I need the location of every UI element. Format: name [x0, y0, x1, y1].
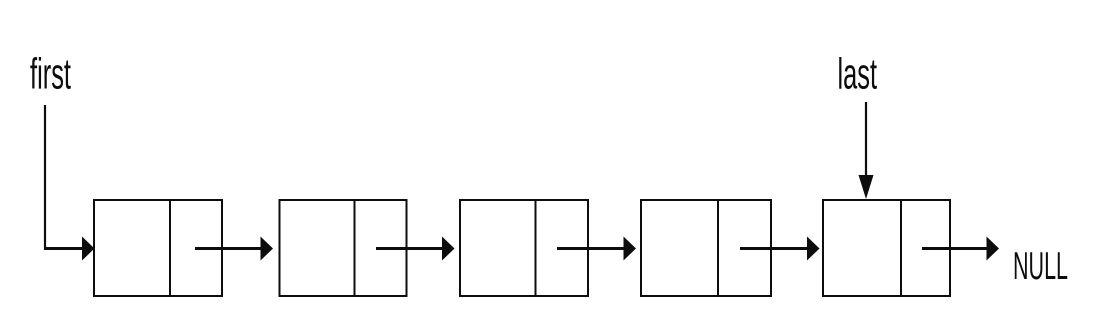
svg-text:NULL: NULL [1013, 245, 1068, 288]
svg-text:first: first [30, 50, 71, 99]
svg-text:last: last [838, 50, 878, 99]
